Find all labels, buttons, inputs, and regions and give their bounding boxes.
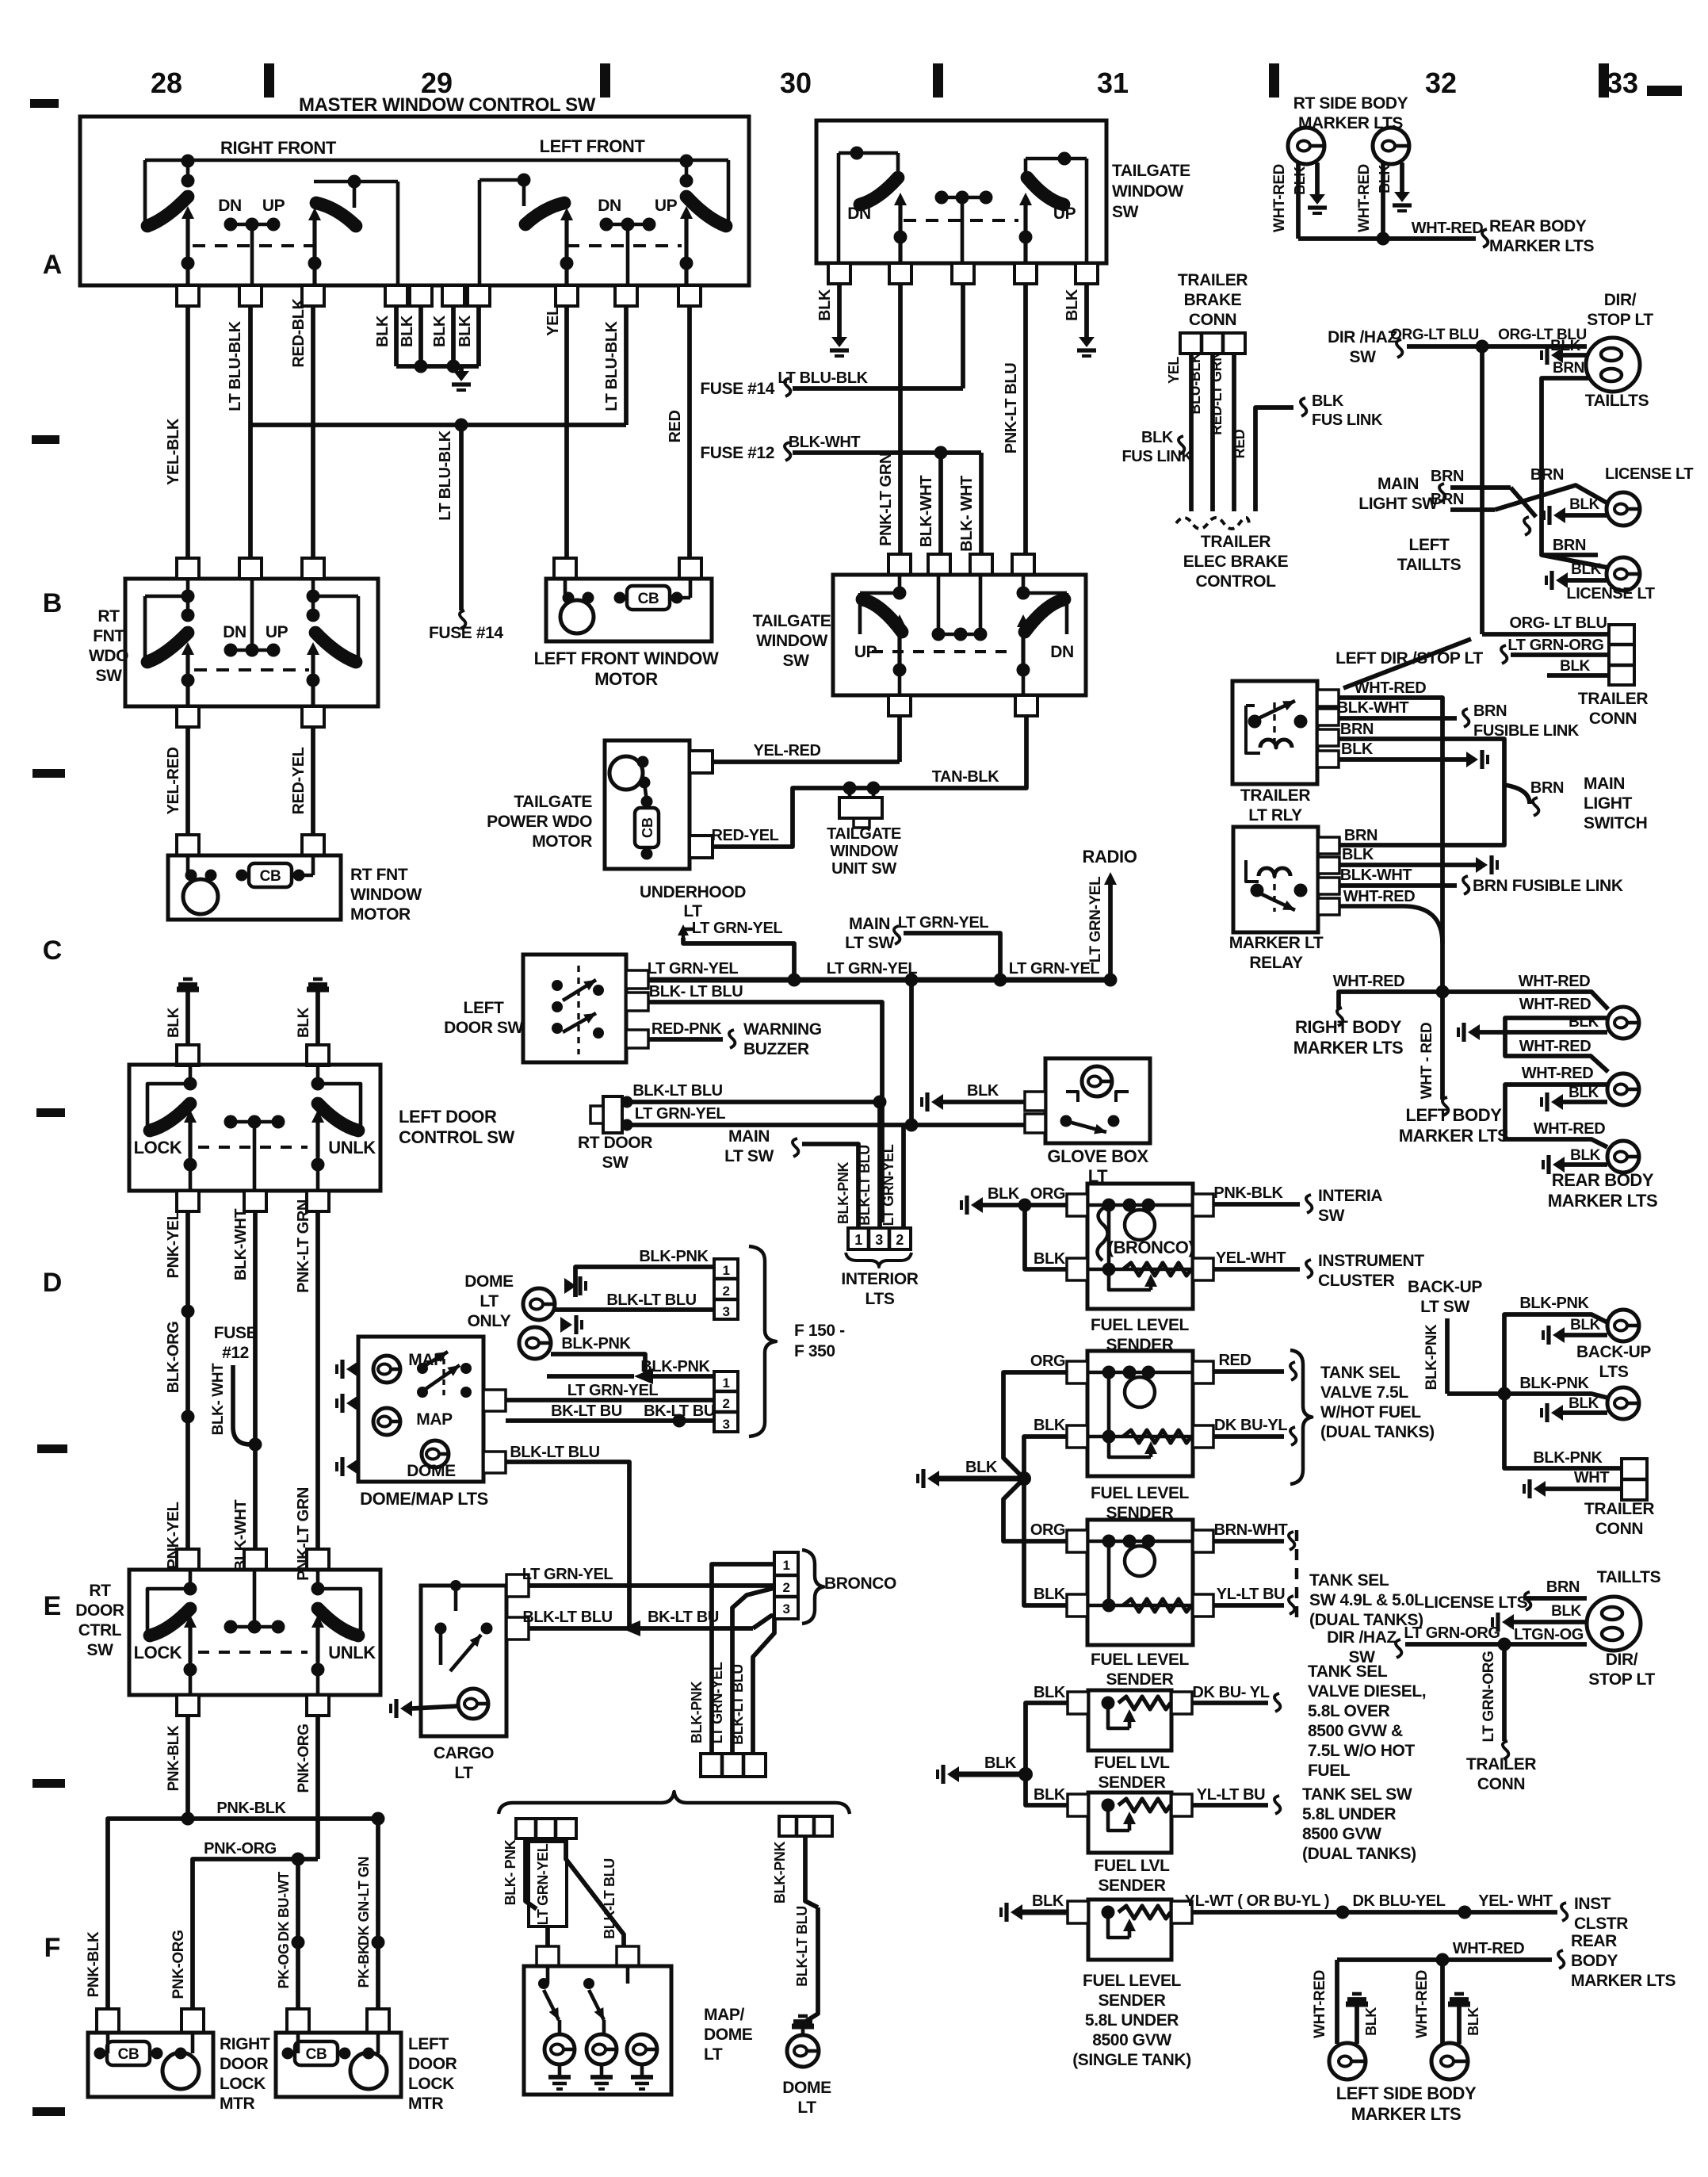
svg-text:FNT: FNT [93,627,124,645]
svg-text:LT: LT [480,1292,499,1310]
wire PNK-BLK to interia sw [1213,1202,1300,1207]
wire BLK-PNK arrow to connector block lower [634,1368,653,1384]
svg-text:BLK-PNK: BLK-PNK [1519,1295,1589,1312]
svg-text:LT BLU-BLK: LT BLU-BLK [437,430,454,520]
svg-text:LT SW: LT SW [1420,1298,1469,1316]
wire RED trailer brake [1255,407,1293,511]
svg-text:FUEL LEVEL: FUEL LEVEL [1091,1651,1190,1669]
wire BLK-WHT trailer rly / BRN fusible link [1339,716,1457,721]
svg-text:UNIT SW: UNIT SW [831,860,896,878]
svg-text:SENDER: SENDER [1098,1991,1165,2010]
svg-text:CLUSTER: CLUSTER [1318,1272,1395,1290]
interior lts connector blocks 1 3 2 [848,1228,911,1249]
svg-text:DN: DN [223,623,246,641]
svg-text:BACK-UP: BACK-UP [1576,1343,1651,1361]
wire RED-YEL [311,727,315,835]
left door control bottom connector pins [177,1191,199,1211]
wire PNK-LT GRN [315,1211,320,1549]
svg-text:INSTRUMENT: INSTRUMENT [1318,1252,1424,1270]
svg-text:DOME: DOME [704,2026,753,2044]
brace BRONCO [802,1550,823,1624]
wire BLK backup 1 ground [1553,1327,1565,1343]
left side body marker lamp 2 [1440,1960,1445,2044]
svg-text:LT BLU-BLK: LT BLU-BLK [778,369,868,387]
wire YEL-RED [185,727,190,835]
svg-text:YEL- WHT: YEL- WHT [1478,1892,1553,1910]
svg-text:BODY: BODY [1571,1952,1618,1970]
svg-text:BLK-LT BLU: BLK-LT BLU [794,1906,810,1987]
fuel lvl sender diesel box [1088,1690,1171,1750]
svg-text:RED-YEL: RED-YEL [290,747,308,814]
svg-text:BLK-WHT: BLK-WHT [1337,699,1409,717]
DOME/MAP LTS box [358,1337,483,1482]
svg-text:MARKER LTS: MARKER LTS [1351,2104,1462,2124]
svg-text:30: 30 [780,67,812,99]
tailgate sw dashed detent line [904,219,1018,222]
svg-text:ORG: ORG [1030,1185,1065,1203]
cargo lt switch [435,1623,447,1635]
svg-text:PK-OG: PK-OG [276,1943,292,1988]
svg-text:3: 3 [722,1417,729,1432]
svg-text:3: 3 [875,1232,883,1248]
svg-text:LT BLU-BLK: LT BLU-BLK [227,320,244,411]
svg-text:BLK: BLK [1569,1395,1599,1412]
svg-text:BLK: BLK [1342,846,1374,863]
svg-text:BLK: BLK [1551,1603,1582,1620]
rt door ctrl left contact [147,1589,189,1634]
wire RED-YEL / TAN-BLK tailgate [713,716,1026,847]
svg-text:LT GRN-YEL: LT GRN-YEL [709,1662,725,1743]
wire BRN license lts [1523,1596,1587,1601]
wire PNK-BLK horizontal [108,1819,378,2009]
wire BLK-PNK dome second [551,1354,645,1376]
tailgate motor connector pins right [690,751,713,773]
svg-text:CONTROL: CONTROL [1195,572,1276,591]
svg-text:SW 4.9L & 5.0L: SW 4.9L & 5.0L [1309,1591,1424,1609]
svg-text:WHT-RED: WHT-RED [1312,1970,1328,2038]
svg-text:DOOR: DOOR [75,1601,124,1620]
wire YEL-BLK [185,306,190,560]
map/dome lamps [544,2034,575,2064]
svg-text:BLK: BLK [1341,740,1374,758]
svg-text:5.8L OVER: 5.8L OVER [1308,1702,1390,1720]
left front window motor connector pins [554,558,576,579]
svg-text:SENDER: SENDER [1098,1877,1165,1895]
svg-text:BLK: BLK [1034,1684,1066,1701]
ground BLK bronco sender [971,1197,983,1213]
svg-text:BRN: BRN [1553,360,1584,377]
svg-text:DOME/MAP LTS: DOME/MAP LTS [360,1489,488,1509]
svg-text:SW: SW [1318,1207,1345,1225]
wire BLK-PNK dome lt [805,1836,818,1907]
svg-text:BLK: BLK [374,315,392,347]
svg-text:PNK-YEL: PNK-YEL [165,1211,182,1278]
wire LT BLU-BLK drop to fuse 14 [459,425,464,610]
svg-text:REAR: REAR [1571,1932,1617,1950]
svg-text:BACK-UP: BACK-UP [1408,1278,1482,1296]
svg-text:SENDER: SENDER [1106,1670,1173,1689]
svg-text:LIGHT: LIGHT [1584,794,1633,813]
fuel lvl sender 5.8L under box [1088,1792,1171,1853]
RT FNT window motor circuit breaker CB [249,863,292,887]
svg-text:BLK: BLK [1571,561,1602,578]
svg-text:LT GRN-YEL: LT GRN-YEL [692,920,783,937]
wire BLK-LT BLU map/dome diagonal [566,1838,624,1946]
svg-text:LT GRN-ORG: LT GRN-ORG [1481,1651,1497,1743]
left door sw contacts [552,980,563,991]
master sw bottom connector pins [177,285,199,306]
svg-text:BK-LT BU: BK-LT BU [648,1609,719,1626]
svg-text:D: D [43,1268,63,1298]
svg-text:CB: CB [260,868,281,885]
svg-text:PNK-LT GRN: PNK-LT GRN [877,453,895,546]
svg-text:WHT - RED: WHT - RED [1419,1023,1435,1100]
svg-text:BLK-LT BLU: BLK-LT BLU [730,1664,746,1745]
svg-text:STOP LT: STOP LT [1587,311,1653,329]
dome/map lamp MAP 2 [373,1408,400,1435]
svg-text:BLK: BLK [399,315,416,347]
wire BLK-LT BLU dome to connector 3 [555,1307,714,1312]
svg-text:RELAY: RELAY [1249,954,1303,972]
wire BLK left to ground [837,284,842,337]
svg-text:FUS LINK: FUS LINK [1312,411,1383,429]
svg-text:BLK- WHT: BLK- WHT [958,476,976,552]
svg-text:DOOR: DOOR [220,2055,269,2073]
svg-text:WHT-RED: WHT-RED [1519,973,1591,990]
svg-text:LIGHT SW: LIGHT SW [1358,495,1438,513]
svg-text:TANK SEL SW: TANK SEL SW [1302,1785,1412,1804]
svg-text:BK-LT BU: BK-LT BU [551,1402,622,1420]
svg-text:FUSE: FUSE [214,1324,258,1342]
svg-text:UP: UP [266,623,288,641]
svg-text:LT: LT [454,1764,473,1782]
svg-text:TAILGATE: TAILGATE [1112,162,1190,180]
map/dome switch arrows [538,1978,549,1989]
svg-text:BRN: BRN [1553,537,1586,554]
wire YEL trailer brake [1189,354,1194,511]
svg-text:WHT-RED: WHT-RED [1519,1038,1591,1055]
left door control top connector pins [177,1045,199,1066]
RT FNT sw dashed detent line [194,668,309,671]
svg-text:RIGHT: RIGHT [220,2035,270,2053]
svg-text:F: F [44,1933,61,1963]
svg-text:BLK-LT BLU: BLK-LT BLU [522,1609,612,1626]
connector block 123 upper (F150-F350) [714,1259,738,1319]
map/dome left connector trio [516,1819,576,1838]
svg-text:SW: SW [602,1154,629,1172]
svg-text:CONN: CONN [1589,710,1637,728]
svg-text:SW: SW [1348,1648,1375,1666]
svg-text:DOOR: DOOR [408,2055,457,2073]
left door control left contact [147,1084,189,1129]
lamp back-up 2 [1607,1387,1639,1419]
svg-text:LEFT FRONT WINDOW: LEFT FRONT WINDOW [534,649,719,668]
glove box switch contacts [1060,1115,1072,1127]
master sw dashed detent line right [193,244,315,247]
left door control right contact [320,1084,361,1129]
svg-text:YEL-RED: YEL-RED [754,742,821,759]
tailgate window switch (column 30) box [816,121,1106,263]
wire BRN main light sw lower to license lamp [1450,507,1495,512]
svg-text:BLK: BLK [1570,1147,1601,1164]
RT DOOR SW connector [603,1096,622,1133]
svg-text:LT GRN-ORG: LT GRN-ORG [1507,637,1603,654]
trailer elec brake control dashed bracket [1176,518,1249,529]
wire YEL-RED tailgate [713,759,900,764]
master sw right-front right contact [314,180,398,184]
svg-text:RED: RED [1232,429,1248,458]
svg-text:CARGO: CARGO [434,1744,494,1762]
tailgate sw top middle contacts [942,196,986,200]
svg-text:B: B [43,588,63,618]
svg-text:ORG: ORG [1030,1352,1065,1370]
svg-text:1: 1 [722,1375,729,1391]
left side body marker lamp 1 [1335,1960,1339,2044]
svg-text:BLK: BLK [166,1007,182,1038]
wire BLK-LT BLU to interior lts 3 [877,1102,882,1228]
svg-text:LICENSE LTS: LICENSE LTS [1424,1594,1528,1612]
TRAILER LT RLY box [1232,681,1317,784]
wire BLK bronco sender lower [1025,1205,1067,1269]
wire LT GRN-ORG to trailer conn [1511,652,1609,657]
svg-text:WINDOW: WINDOW [830,843,898,860]
svg-text:LT GRN-YEL: LT GRN-YEL [827,960,918,978]
wire ORG tank sel 4.9 [1003,1479,1067,1541]
svg-text:BLK: BLK [1032,1892,1064,1910]
svg-text:DN: DN [598,197,621,215]
wire BLK-LT BLU bronco riser [753,1617,774,1754]
fuel level sender (tank sel sw 4.9L 5.0L) box [1087,1520,1193,1645]
svg-text:BLK: BLK [1141,429,1174,446]
svg-text:BRN: BRN [1344,827,1377,844]
svg-text:5.8L UNDER: 5.8L UNDER [1085,2011,1179,2030]
svg-text:MAP/: MAP/ [704,2006,744,2024]
map/dome lamp grounds [558,2064,562,2077]
svg-text:RED: RED [1218,1352,1251,1369]
svg-text:DIR/: DIR/ [1606,1651,1638,1669]
wire BLK license upper to ground [1553,507,1565,523]
right door lock motor [162,2053,199,2089]
wire BLU-BLK trailer brake [1210,354,1215,511]
left door lock motor [350,2053,387,2089]
svg-text:BLK-PNK: BLK-PNK [640,1358,710,1375]
svg-text:LTS: LTS [865,1290,895,1308]
marker relay connector stubs [1318,837,1339,854]
svg-text:WDO: WDO [89,647,128,665]
wire LT GRN-YEL main lt sw [904,933,1000,980]
fuel level sender single tank box [1088,1900,1171,1960]
svg-text:BRN: BRN [1340,721,1374,738]
svg-text:YL-LT BU: YL-LT BU [1217,1586,1285,1603]
brace tank sel 7.5L [1290,1350,1312,1484]
svg-text:WHT-RED: WHT-RED [1343,888,1416,905]
svg-text:BLK-LT BLU: BLK-LT BLU [606,1291,696,1309]
svg-text:FUSE #14: FUSE #14 [700,380,774,398]
lamp DOME LT [787,2035,819,2067]
wire ORG tank sel 7.5 [1003,1372,1067,1479]
svg-text:BLK-LT BLU: BLK-LT BLU [602,1858,617,1939]
svg-text:SW: SW [86,1641,113,1659]
svg-text:CONTROL SW: CONTROL SW [399,1127,515,1147]
svg-text:TAILLTS: TAILLTS [1585,392,1649,410]
wire WHT trailer conn [1534,1481,1546,1497]
svg-text:RT DOOR: RT DOOR [578,1134,652,1152]
svg-text:BLK: BLK [1034,1250,1066,1268]
trailer conn block D [1622,1459,1647,1500]
wire WHT-RED to marker lamp 1 [1442,992,1608,1009]
svg-text:3: 3 [782,1601,789,1616]
svg-text:CTRL: CTRL [78,1621,122,1639]
svg-text:FUSE #12: FUSE #12 [700,444,774,462]
svg-text:BLK- PNK: BLK- PNK [502,1839,518,1905]
wire BLK-LT BLU dome lt [803,1907,818,2023]
svg-text:CB: CB [638,591,659,607]
svg-text:RT FNT: RT FNT [350,866,408,884]
LEFT DOOR LOCK MTR box [276,2033,401,2097]
svg-text:SENDER: SENDER [1098,1773,1165,1792]
ground BLK dual senders [927,1471,939,1486]
wire PNK-LT BLU [1023,284,1028,553]
wire BK-LT BU dome/map [506,1418,714,1423]
svg-text:LOCK: LOCK [134,1643,182,1662]
GLOVE BOX LT box [1045,1058,1150,1143]
svg-text:BLK: BLK [457,315,474,347]
svg-text:DK BU-YL: DK BU-YL [1214,1417,1288,1434]
marker relay contacts [1251,884,1264,897]
svg-text:8500 GVW: 8500 GVW [1092,2031,1171,2049]
dome/map lamp MAP 1 [373,1356,400,1383]
dome/map switch contacts [417,1363,428,1374]
label BLK FUS LINK right [1301,398,1306,416]
wire BLK-PNK dome to connector 1 [575,1267,714,1297]
boxed label LT GRN-YEL [529,1842,567,1926]
svg-text:UNLK: UNLK [328,1643,376,1662]
TAILGATE WINDOW UNIT SW [843,782,857,795]
left door control dashed detent [198,1146,308,1149]
svg-text:DK BU-WT: DK BU-WT [276,1872,292,1942]
svg-text:LTGN-OG: LTGN-OG [1514,1626,1584,1643]
tailgate sw bottom connector pins [828,263,850,284]
wire BRN trailer rly [1339,739,1504,845]
wire PNK-YEL / BLK-ORG [185,1211,190,1549]
svg-text:MARKER LTS: MARKER LTS [1548,1191,1658,1211]
svg-text:GLOVE BOX: GLOVE BOX [1047,1146,1148,1166]
wire BLK tank sel 7.5 [1024,1437,1067,1479]
dome lt right connector trio [779,1816,832,1836]
trailer brake connector block [1180,333,1245,354]
wire RED tank sel [1213,1369,1284,1374]
svg-text:LEFT SIDE BODY: LEFT SIDE BODY [1336,2083,1477,2103]
svg-text:BRONCO: BRONCO [824,1574,896,1593]
svg-text:DOME: DOME [464,1272,514,1291]
svg-text:5.8L UNDER: 5.8L UNDER [1302,1805,1396,1823]
wire BLK-PNK to backup lamp 1 [1504,1314,1607,1394]
wire LT GRN-YEL rt door sw to glove box [627,1123,1025,1127]
rt door ctrl middle contacts [224,1620,238,1634]
svg-text:YEL: YEL [1166,357,1182,384]
svg-text:RT: RT [89,1582,111,1600]
wire BLK-PNK backup trunk [1445,1318,1450,1394]
wire LT BLU-BLK master to RT FNT sw [248,306,253,560]
RT FNT sw right contact [313,595,358,599]
trailer conn block [1609,625,1634,685]
LEFT DOOR CONTROL SW box [129,1065,380,1191]
tailgate sw top right contact [1026,157,1087,161]
svg-text:MAIN: MAIN [728,1127,770,1146]
svg-text:BLK: BLK [431,315,449,347]
lamp rear body marker [1607,1141,1639,1173]
svg-text:VALVE DIESEL,: VALVE DIESEL, [1308,1682,1426,1701]
wire YEL-WHT to instrument cluster [1213,1267,1300,1272]
RT FNT sw left contact [145,595,188,599]
svg-text:BLK: BLK [1064,289,1081,321]
svg-text:F 350: F 350 [794,1342,835,1360]
svg-text:1: 1 [782,1558,789,1573]
svg-text:BRN: BRN [1546,1578,1580,1596]
wire WHT-RED marker lamp 2 [1381,163,1385,239]
svg-text:BLK: BLK [967,1082,999,1100]
svg-text:PNK-LT BLU: PNK-LT BLU [1003,363,1020,454]
tailgate row-B bottom connector pins [888,695,911,716]
svg-text:TRAILER: TRAILER [1578,690,1648,708]
svg-text:WHT-RED: WHT-RED [1333,973,1405,990]
svg-text:BLK-WHT: BLK-WHT [918,476,935,548]
grounds dome/map left [346,1361,358,1377]
svg-text:BLK-PNK: BLK-PNK [835,1162,851,1225]
svg-text:UNLK: UNLK [328,1138,376,1157]
svg-text:LEFT FRONT: LEFT FRONT [540,136,646,156]
svg-text:RIGHT FRONT: RIGHT FRONT [220,138,337,158]
svg-text:(SINGLE TANK): (SINGLE TANK) [1072,2051,1191,2069]
svg-text:TAN-BLK: TAN-BLK [932,768,1000,786]
svg-text:UP: UP [262,197,285,215]
svg-text:WHT: WHT [1574,1469,1610,1486]
svg-text:RADIO: RADIO [1083,847,1137,867]
svg-text:FUEL: FUEL [1308,1762,1351,1780]
svg-text:CONN: CONN [1189,311,1236,329]
svg-text:BLK: BLK [1569,1085,1599,1101]
svg-text:BLK-WHT: BLK-WHT [1340,867,1412,884]
svg-text:BLK: BLK [1312,392,1344,410]
svg-text:MAIN: MAIN [1584,775,1625,793]
wire BLK marker relay to ground [1339,863,1476,867]
svg-text:YEL: YEL [544,306,562,336]
svg-text:MARKER LTS: MARKER LTS [1571,1972,1676,1990]
RT FNT window motor [183,879,218,914]
svg-text:INTERIA: INTERIA [1318,1187,1382,1205]
svg-text:WINDOW: WINDOW [1112,182,1183,201]
svg-text:BLK: BLK [1034,1586,1066,1603]
wire BLK to dir/stop lamp [1551,347,1563,363]
LEFT FRONT WINDOW MOTOR box [546,579,712,641]
rt door ctrl right contact [320,1589,361,1634]
svg-text:MTR: MTR [220,2095,255,2113]
svg-text:CB: CB [640,817,655,838]
svg-text:BLK-WHT: BLK-WHT [789,434,861,451]
master sw left-front left contact [480,178,524,182]
svg-text:LOCK: LOCK [220,2075,266,2093]
tailgate row-B sw left contact [860,591,900,595]
master sw left-front right contact [727,160,731,224]
wire PNK-ORG horizontal [193,1859,318,2009]
left front window motor [560,600,594,633]
svg-text:BLK-PNK: BLK-PNK [561,1335,631,1352]
svg-text:CB: CB [118,2046,139,2063]
cargo connector stub [506,1617,529,1639]
diagonal wire to trailer conn [1343,639,1471,688]
wire WHT-RED to rear body marker lts [1298,236,1476,241]
svg-text:BLK-PNK: BLK-PNK [772,1842,788,1904]
